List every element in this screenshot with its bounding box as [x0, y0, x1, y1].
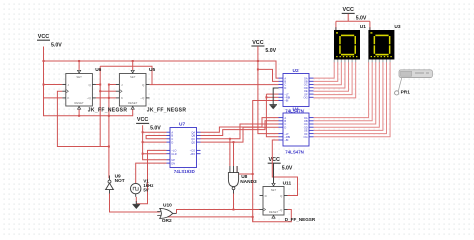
- wire NAND output down: [233, 193, 235, 210]
- svg-text:U6: U6: [95, 67, 101, 73]
- junction U5 J tap: [108, 84, 110, 86]
- wire U1 segment pin 5 to U2: [314, 62, 349, 91]
- junction U6 SET drop: [78, 60, 80, 62]
- wire VCC4 stem down: [143, 125, 167, 160]
- svg-text:74LS47N: 74LS47N: [285, 150, 304, 155]
- svg-text:~BI: ~BI: [284, 99, 288, 103]
- wire U7 DOWN link to V1 plus: [136, 163, 167, 183]
- wire U7 CLR link: [143, 153, 167, 155]
- display U1 seven-segment: [334, 30, 360, 60]
- junction VCC2 / U2.B branch: [257, 68, 259, 70]
- wire U1 segment pin 1 to U2: [314, 62, 335, 78]
- svg-text:NOT: NOT: [115, 178, 125, 184]
- junction U2 ~RBI tap: [265, 96, 267, 98]
- wire U7.D link: [143, 141, 167, 143]
- svg-text:OR2: OR2: [162, 218, 172, 224]
- svg-text:5.0V: 5.0V: [282, 165, 293, 171]
- junction U5 CLK tap: [99, 90, 101, 92]
- svg-text:~Q: ~Q: [140, 96, 145, 100]
- wire drop to U6 SET: [78, 61, 80, 70]
- junction U6 J tap: [43, 84, 45, 86]
- junction NAND output / clock line: [233, 209, 235, 211]
- wire vertical x109 to NOT gate: [108, 85, 110, 179]
- wire VCC3 stem: [347, 14, 349, 21]
- wire U3 segment pin 3 to U4: [314, 62, 376, 124]
- svg-text:74LS47N: 74LS47N: [285, 109, 304, 114]
- svg-text:CLR: CLR: [171, 152, 176, 156]
- junction VCC2 stem / top net: [257, 60, 259, 62]
- flip-flop U5 JK_FF_NEGSR: [116, 70, 150, 109]
- wire U7 ~LOAD link down to V1 ground: [136, 150, 166, 203]
- power VCC symbol V1 rail (top-left): [37, 34, 62, 48]
- junction NAND input3 / loop: [252, 173, 254, 175]
- wire NOT output to OR input: [110, 194, 160, 213]
- junction U6 reset tap: [78, 115, 80, 117]
- svg-text:NAND3: NAND3: [240, 179, 257, 185]
- wire U1 anode drop: [335, 21, 337, 30]
- power VCC symbol above U11: [268, 157, 293, 171]
- display pin stubs: [334, 60, 390, 63]
- svg-text:QD: QD: [191, 140, 195, 144]
- svg-text:D: D: [284, 125, 286, 129]
- flip-flop U11 D_FF_NEGSR: [260, 183, 288, 218]
- wire U6 K input: [44, 97, 63, 99]
- decoder U4 74LS47N: [279, 113, 314, 146]
- wire riser x100 over U5: [99, 66, 101, 146]
- wire U7.QB to U4.B: [201, 121, 279, 136]
- svg-text:K: K: [121, 96, 123, 100]
- svg-text:RESET: RESET: [269, 210, 279, 214]
- wire drop to U5 SET: [132, 61, 134, 70]
- wire V1 ground stem: [135, 197, 137, 202]
- junction U6 Q riser: [99, 84, 101, 86]
- power VCC symbol above U2 decoder: [251, 40, 276, 54]
- svg-text:~Q: ~Q: [87, 96, 92, 100]
- wire U1 segment pin 6 to U2: [314, 62, 353, 95]
- display U3 top pin stub: [369, 27, 371, 30]
- ground under U2.D: [269, 102, 277, 110]
- OR gate U10 OR2: [157, 208, 176, 218]
- wire U3 anode drop: [369, 21, 371, 30]
- svg-text:OG: OG: [304, 96, 308, 100]
- display U3 seven-segment: [368, 30, 394, 60]
- svg-text:U5: U5: [149, 67, 155, 73]
- svg-text:RESET: RESET: [74, 101, 84, 105]
- svg-text:K: K: [67, 96, 69, 100]
- wire U5 Q long bus to U2.C: [150, 84, 279, 86]
- junction U7.A tap: [142, 131, 144, 133]
- junction NAND input1: [229, 138, 231, 140]
- wire VCC stem to U11 SET (black): [273, 164, 275, 184]
- junction x109 / ~Q net: [108, 97, 110, 99]
- svg-text:U11: U11: [283, 180, 292, 186]
- wire U3 segment pin 1 to U4: [314, 62, 369, 118]
- wire U3 segment pin 2 to U4: [314, 62, 373, 121]
- junction x109 / reset rail: [108, 115, 110, 117]
- wire U5 J input: [109, 84, 116, 86]
- counter U7 74LS193D: [167, 128, 201, 168]
- svg-text:~BI: ~BI: [284, 138, 288, 142]
- svg-text:U3: U3: [394, 24, 400, 30]
- svg-text:5.0V: 5.0V: [265, 48, 276, 54]
- junction U5 SET drop: [132, 60, 134, 62]
- svg-text:~BO: ~BO: [190, 152, 195, 156]
- svg-text:~Q: ~Q: [278, 208, 283, 212]
- wire U2 ~BI/RBO to lower loop: [253, 101, 279, 222]
- wire VCC rail vertical + reset rail: [44, 47, 133, 116]
- wire U1 segment pin 4 to U2: [314, 62, 345, 88]
- wire U7.QD to U4.D: [201, 127, 279, 142]
- svg-text:VCC: VCC: [38, 34, 49, 40]
- ground under V1: [133, 201, 141, 209]
- svg-text:5V: 5V: [143, 188, 148, 193]
- wire OR output net to U11.CLK: [177, 210, 260, 214]
- wire U11.Q feedback to U4 ~BI/RBO: [272, 140, 297, 196]
- svg-text:RESET: RESET: [128, 101, 138, 105]
- svg-text:SET: SET: [271, 188, 277, 192]
- wire display supply rail: [336, 20, 370, 22]
- decoder U2 74LS47N: [279, 74, 314, 107]
- svg-text:DN: DN: [171, 161, 175, 165]
- svg-text:VCC: VCC: [252, 40, 263, 46]
- wire U3 segment pin 6 to U4: [314, 62, 387, 134]
- wire VCC2 branch to U2.B: [258, 69, 279, 81]
- svg-text:74LS193D: 74LS193D: [174, 169, 195, 174]
- junction x109 / clk net: [108, 146, 110, 148]
- power VCC symbol left of U7: [136, 117, 161, 131]
- svg-text:5.0V: 5.0V: [356, 16, 367, 22]
- junction U7 CLR tap: [142, 153, 144, 155]
- wire top horizontal net VCC to U2.A: [44, 61, 279, 78]
- junction loop / or-line: [252, 216, 254, 218]
- probe PR1: [395, 70, 433, 95]
- wire U2.D to ground (black): [273, 88, 278, 102]
- wire U5 CLK input: [100, 90, 116, 92]
- wire U1 segment pin 3 to U2: [314, 62, 342, 85]
- NOT gate U9: [106, 176, 114, 194]
- junction NAND input2: [233, 141, 235, 143]
- wire U6 RESET drop: [78, 109, 80, 116]
- svg-text:OG: OG: [304, 135, 308, 139]
- svg-text:5.0V: 5.0V: [51, 42, 62, 48]
- svg-text:VCC: VCC: [137, 117, 148, 123]
- flip-flop U6 JK_FF_NEGSR: [62, 70, 96, 109]
- wire over U5 to Q bus: [100, 66, 152, 84]
- svg-text:SET: SET: [130, 75, 136, 79]
- wire U7.QA to U4.A: [201, 118, 279, 133]
- svg-text:U10: U10: [163, 202, 172, 208]
- svg-text:VCC: VCC: [343, 7, 354, 13]
- wire U2 ~RBI link: [266, 96, 278, 98]
- wire U6 Q to riser: [96, 84, 100, 86]
- wire NAND3 input 2 tap: [233, 142, 235, 166]
- svg-text:JK_FF_NEGSR: JK_FF_NEGSR: [147, 108, 187, 114]
- svg-text:U1: U1: [360, 24, 366, 30]
- wire U3 segment pin 5 to U4: [314, 62, 383, 130]
- svg-text:SET: SET: [76, 75, 82, 79]
- wire U1 segment pin 7 to U2: [314, 62, 356, 98]
- wire U7.QC to U4.C: [201, 124, 279, 139]
- svg-text:D_FF_NEGSR: D_FF_NEGSR: [285, 217, 316, 222]
- wire U7.A link: [143, 131, 167, 133]
- power VCC symbol above displays: [342, 7, 367, 21]
- svg-text:D: D: [284, 86, 286, 90]
- display U1 top pin stub: [335, 27, 337, 30]
- wire U6 CLK net down-left: [57, 91, 109, 146]
- wire NAND3 input 3 branch: [237, 166, 253, 174]
- svg-text:PR1: PR1: [401, 90, 411, 96]
- svg-text:5.0V: 5.0V: [150, 126, 161, 132]
- wire U3 segment pin 7 to U4: [314, 62, 391, 137]
- wire NAND3 input 1 tap: [229, 139, 231, 166]
- svg-text:U2: U2: [293, 68, 299, 74]
- wire U2 ~LT link: [266, 93, 278, 95]
- svg-text:U7: U7: [179, 121, 185, 127]
- svg-text:JK_FF_NEGSR: JK_FF_NEGSR: [88, 108, 128, 114]
- clock source V1: [131, 183, 141, 196]
- wire feedback loop under U11: [163, 210, 291, 222]
- NAND3 gate U8: [228, 166, 238, 194]
- wire VCC2 stem down to U4 ~LT: [258, 46, 279, 133]
- wire U3 segment pin 4 to U4: [314, 62, 380, 127]
- wire vertical x266 to U4 ~RBI: [266, 94, 278, 137]
- junction U7.D tap: [142, 141, 144, 143]
- wire U6 J input: [44, 84, 63, 86]
- wire U1 segment pin 2 to U2: [314, 62, 338, 81]
- junction VCC rail / top net: [43, 60, 45, 62]
- svg-text:VCC: VCC: [269, 157, 280, 163]
- wire U7 B-C tie: [146, 136, 166, 139]
- wire U6 ~Q to U5 K: [96, 97, 116, 99]
- svg-text:D: D: [171, 140, 173, 144]
